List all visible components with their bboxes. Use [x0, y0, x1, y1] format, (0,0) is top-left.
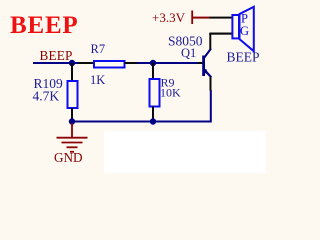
wire emitter vertical — [210, 90, 212, 123]
svg-text:10K: 10K — [160, 86, 181, 100]
node junction at R9 bottom — [150, 118, 156, 124]
resistor R109 body — [68, 81, 78, 108]
sheet background — [0, 0, 266, 173]
resistor R7 pin 1 (left lead) — [79, 62, 94, 64]
node junction at BEEP/R7/R109 — [69, 60, 75, 66]
svg-text:BEEP: BEEP — [40, 48, 73, 63]
ground symbol — [57, 123, 88, 152]
transistor Q1 collector stroke — [204, 49, 211, 59]
resistor R9 pin 2 (bottom lead) — [152, 107, 154, 122]
resistor R7 body — [94, 61, 125, 68]
speaker LS1 pin G lead — [210, 33, 232, 35]
transistor Q1 collector pin (vertical black) — [209, 33, 211, 49]
wire ground rail (bottom horizontal) — [71, 121, 211, 123]
resistor R9 body — [150, 79, 160, 107]
power bar symbol — [191, 11, 193, 25]
transistor Q1 base bar — [202, 56, 205, 77]
svg-text:1K: 1K — [90, 73, 105, 87]
wire collector to speaker G — [209, 33, 232, 35]
node junction at R109 bottom / GND — [69, 118, 75, 124]
wire R7 to Q1 base — [137, 62, 198, 64]
wire +3.3V to speaker P — [192, 17, 210, 19]
transistor Q1 emitter pin (vertical black) — [210, 77, 212, 91]
svg-text:R7: R7 — [91, 42, 106, 56]
svg-text:4.7K: 4.7K — [33, 89, 60, 104]
resistor R9 pin 1 (top lead) — [152, 63, 154, 78]
svg-text:BEEP: BEEP — [227, 50, 260, 65]
area beyond sheet corner (white) — [104, 131, 266, 173]
resistor R109 pin 2 (bottom lead) — [71, 108, 73, 122]
transistor Q1 base pin — [198, 62, 204, 64]
svg-text:+3.3V: +3.3V — [152, 10, 186, 25]
speaker LS1 pin P lead — [210, 17, 232, 19]
transistor Q1 emitter stroke with arrow — [204, 70, 211, 78]
svg-text:GND: GND — [54, 150, 83, 165]
resistor R109 pin 1 (top lead) — [71, 63, 73, 80]
svg-text:BEEP: BEEP — [10, 12, 79, 39]
svg-text:Q1: Q1 — [181, 46, 196, 60]
node junction at R9 top — [150, 60, 156, 66]
speaker LS1 body — [232, 7, 253, 51]
resistor R7 pin 2 (right lead) — [125, 62, 138, 64]
svg-text:G: G — [240, 24, 249, 38]
wire BEEP net (left horizontal) — [33, 62, 79, 64]
